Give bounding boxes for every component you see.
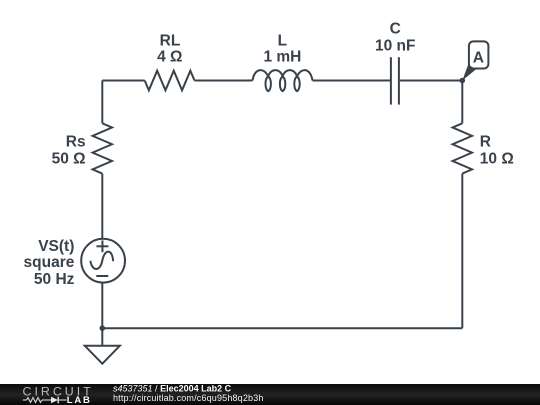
logo mini wire after diode	[58, 399, 66, 401]
flag A box	[469, 41, 489, 68]
svg-text:10 Ω: 10 Ω	[480, 151, 514, 168]
resistor R	[453, 123, 472, 173]
wire RL to L	[195, 80, 253, 82]
wire L to C	[313, 80, 391, 82]
logo mini schematic wire	[23, 399, 27, 401]
resistor Rs	[93, 123, 112, 173]
ground	[85, 346, 120, 364]
svg-text:square: square	[24, 254, 75, 271]
wire node A down to R	[461, 81, 463, 124]
svg-text:LAB: LAB	[67, 395, 92, 405]
svg-text:C: C	[390, 21, 401, 38]
wire top-left corner down to Rs	[101, 81, 103, 124]
wire C to node A	[400, 80, 462, 82]
capacitor C plate left	[390, 57, 392, 104]
svg-text:Rs: Rs	[66, 134, 86, 151]
svg-text:1 mH: 1 mH	[263, 49, 301, 66]
resistor RL	[145, 71, 195, 91]
svg-text:4 Ω: 4 Ω	[157, 49, 182, 66]
svg-text:http://circuitlab.com/c6qu95h8: http://circuitlab.com/c6qu95h8q2b3h	[113, 393, 264, 403]
flag A pointer	[462, 65, 476, 81]
wire Rs to VS	[101, 174, 103, 239]
wire bottom horizontal	[102, 327, 462, 329]
node A junction dot	[460, 78, 466, 84]
capacitor C plate right	[398, 57, 400, 104]
wire top-left horizontal	[102, 80, 144, 82]
wire VS to bottom junction	[101, 283, 103, 328]
logo mini resistor	[27, 398, 43, 403]
VS plus sign	[97, 245, 109, 247]
svg-text:VS(t): VS(t)	[38, 238, 74, 255]
svg-text:50 Ω: 50 Ω	[52, 151, 86, 168]
junction dot bottom	[100, 325, 106, 331]
svg-text:R: R	[480, 134, 491, 151]
inductor L	[253, 70, 313, 91]
logo mini wire to diode	[42, 399, 51, 401]
wire R down to bottom right corner	[461, 174, 463, 329]
logo mini diode	[51, 397, 58, 404]
svg-text:RL: RL	[160, 33, 181, 50]
wire junction to ground	[101, 328, 103, 346]
svg-text:L: L	[278, 33, 287, 50]
voltage source VS circle	[81, 239, 125, 283]
svg-text:50 Hz: 50 Hz	[34, 271, 75, 288]
VS sine wave	[90, 252, 113, 269]
svg-text:10 nF: 10 nF	[375, 37, 415, 54]
VS minus sign	[96, 275, 108, 277]
svg-text:A: A	[473, 50, 484, 67]
